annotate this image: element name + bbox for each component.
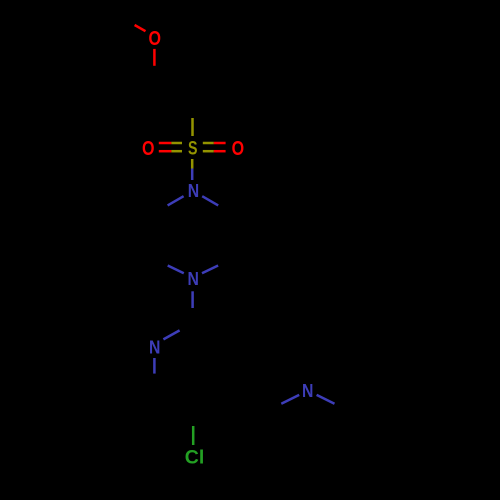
bond C5-Cl (green half)	[192, 426, 195, 445]
svg-text:Cl: Cl	[185, 447, 205, 469]
double bond S=O left, yellow halves	[171, 142, 182, 145]
svg-text:O: O	[148, 28, 161, 50]
svg-text:O: O	[232, 138, 245, 160]
svg-text:N: N	[302, 381, 313, 401]
bond CH2-N4 (blue half)	[281, 395, 299, 404]
bond N4-CH3 (blue half)	[317, 395, 335, 404]
double bond S=O right, red halves	[214, 142, 226, 145]
bond N1-C ring upper-left (blue half)	[168, 196, 184, 205]
double bond S=O right, yellow halves	[203, 142, 214, 145]
svg-text:N: N	[188, 269, 199, 289]
bond CH2-S (yellow half)	[191, 118, 194, 136]
bond N1-C ring upper-right (blue half)	[202, 196, 218, 205]
bond S-N (blue half)	[191, 169, 194, 181]
double bond S=O left, red halves	[159, 142, 172, 145]
bond N2-C ring lower-right (blue half)	[202, 266, 218, 274]
svg-text:N: N	[149, 337, 160, 357]
bond N2-pyridine C2 (blue half)	[191, 291, 194, 308]
bond N2-C ring lower-left (blue half)	[168, 266, 184, 274]
svg-text:O: O	[142, 138, 155, 160]
svg-text:S: S	[188, 139, 198, 160]
bond CH3-O (red half)	[135, 25, 146, 31]
svg-text:N: N	[188, 181, 199, 201]
bond N3-C6 (blue half)	[153, 358, 156, 374]
bond O-CH2 (red half)	[153, 49, 156, 66]
bond S-N (yellow half)	[191, 159, 194, 169]
bond N3-C2 (blue half)	[163, 330, 179, 339]
